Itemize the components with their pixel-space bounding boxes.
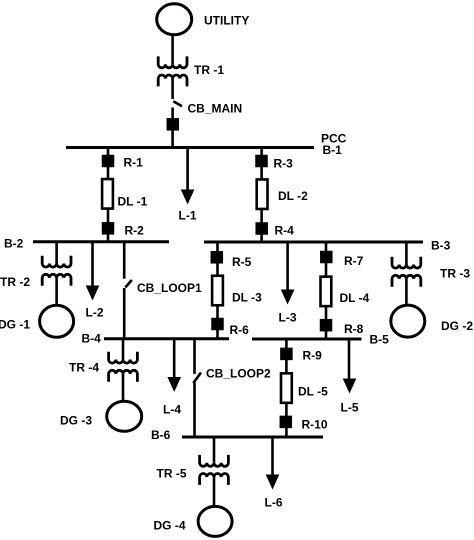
svg-text:R-5: R-5 bbox=[232, 255, 252, 269]
svg-text:B-3: B-3 bbox=[431, 239, 451, 253]
svg-text:R-4: R-4 bbox=[275, 224, 295, 238]
svg-text:TR -2: TR -2 bbox=[0, 275, 30, 289]
svg-text:B-2: B-2 bbox=[4, 237, 24, 251]
svg-text:B-4: B-4 bbox=[82, 332, 102, 346]
svg-text:DL -5: DL -5 bbox=[298, 385, 328, 399]
svg-text:UTILITY: UTILITY bbox=[204, 14, 249, 28]
svg-text:DG -3: DG -3 bbox=[60, 414, 92, 428]
svg-text:R-6: R-6 bbox=[230, 323, 250, 337]
svg-text:CB_MAIN: CB_MAIN bbox=[188, 102, 243, 116]
svg-text:L-6: L-6 bbox=[265, 496, 283, 510]
svg-text:CB_LOOP1: CB_LOOP1 bbox=[137, 281, 202, 295]
svg-text:L-1: L-1 bbox=[179, 209, 197, 223]
svg-text:L-3: L-3 bbox=[279, 311, 297, 325]
svg-text:R-7: R-7 bbox=[344, 254, 364, 268]
svg-text:TR -1: TR -1 bbox=[194, 63, 224, 77]
svg-text:DL -2: DL -2 bbox=[278, 189, 308, 203]
svg-text:B-5: B-5 bbox=[370, 333, 390, 347]
svg-text:R-8: R-8 bbox=[344, 322, 364, 336]
svg-text:DL -1: DL -1 bbox=[118, 195, 148, 209]
svg-text:R-10: R-10 bbox=[302, 418, 328, 432]
svg-text:R-2: R-2 bbox=[125, 224, 145, 238]
svg-text:TR -3: TR -3 bbox=[440, 267, 470, 281]
svg-text:B-6: B-6 bbox=[151, 428, 171, 442]
svg-text:CB_LOOP2: CB_LOOP2 bbox=[206, 367, 271, 381]
svg-text:DL -3: DL -3 bbox=[232, 291, 262, 305]
svg-text:R-3: R-3 bbox=[274, 157, 294, 171]
svg-text:R-9: R-9 bbox=[303, 349, 323, 363]
svg-text:L-5: L-5 bbox=[341, 401, 359, 415]
svg-text:L-2: L-2 bbox=[86, 306, 104, 320]
svg-text:TR -5: TR -5 bbox=[157, 467, 187, 481]
svg-text:DG -1: DG -1 bbox=[0, 318, 30, 332]
svg-text:R-1: R-1 bbox=[124, 156, 144, 170]
svg-text:DG -2: DG -2 bbox=[441, 319, 473, 333]
svg-text:TR -4: TR -4 bbox=[69, 361, 99, 375]
svg-text:B-1: B-1 bbox=[323, 143, 343, 157]
svg-text:DG -4: DG -4 bbox=[154, 519, 186, 533]
svg-text:DL -4: DL -4 bbox=[340, 291, 370, 305]
svg-text:L-4: L-4 bbox=[163, 403, 181, 417]
